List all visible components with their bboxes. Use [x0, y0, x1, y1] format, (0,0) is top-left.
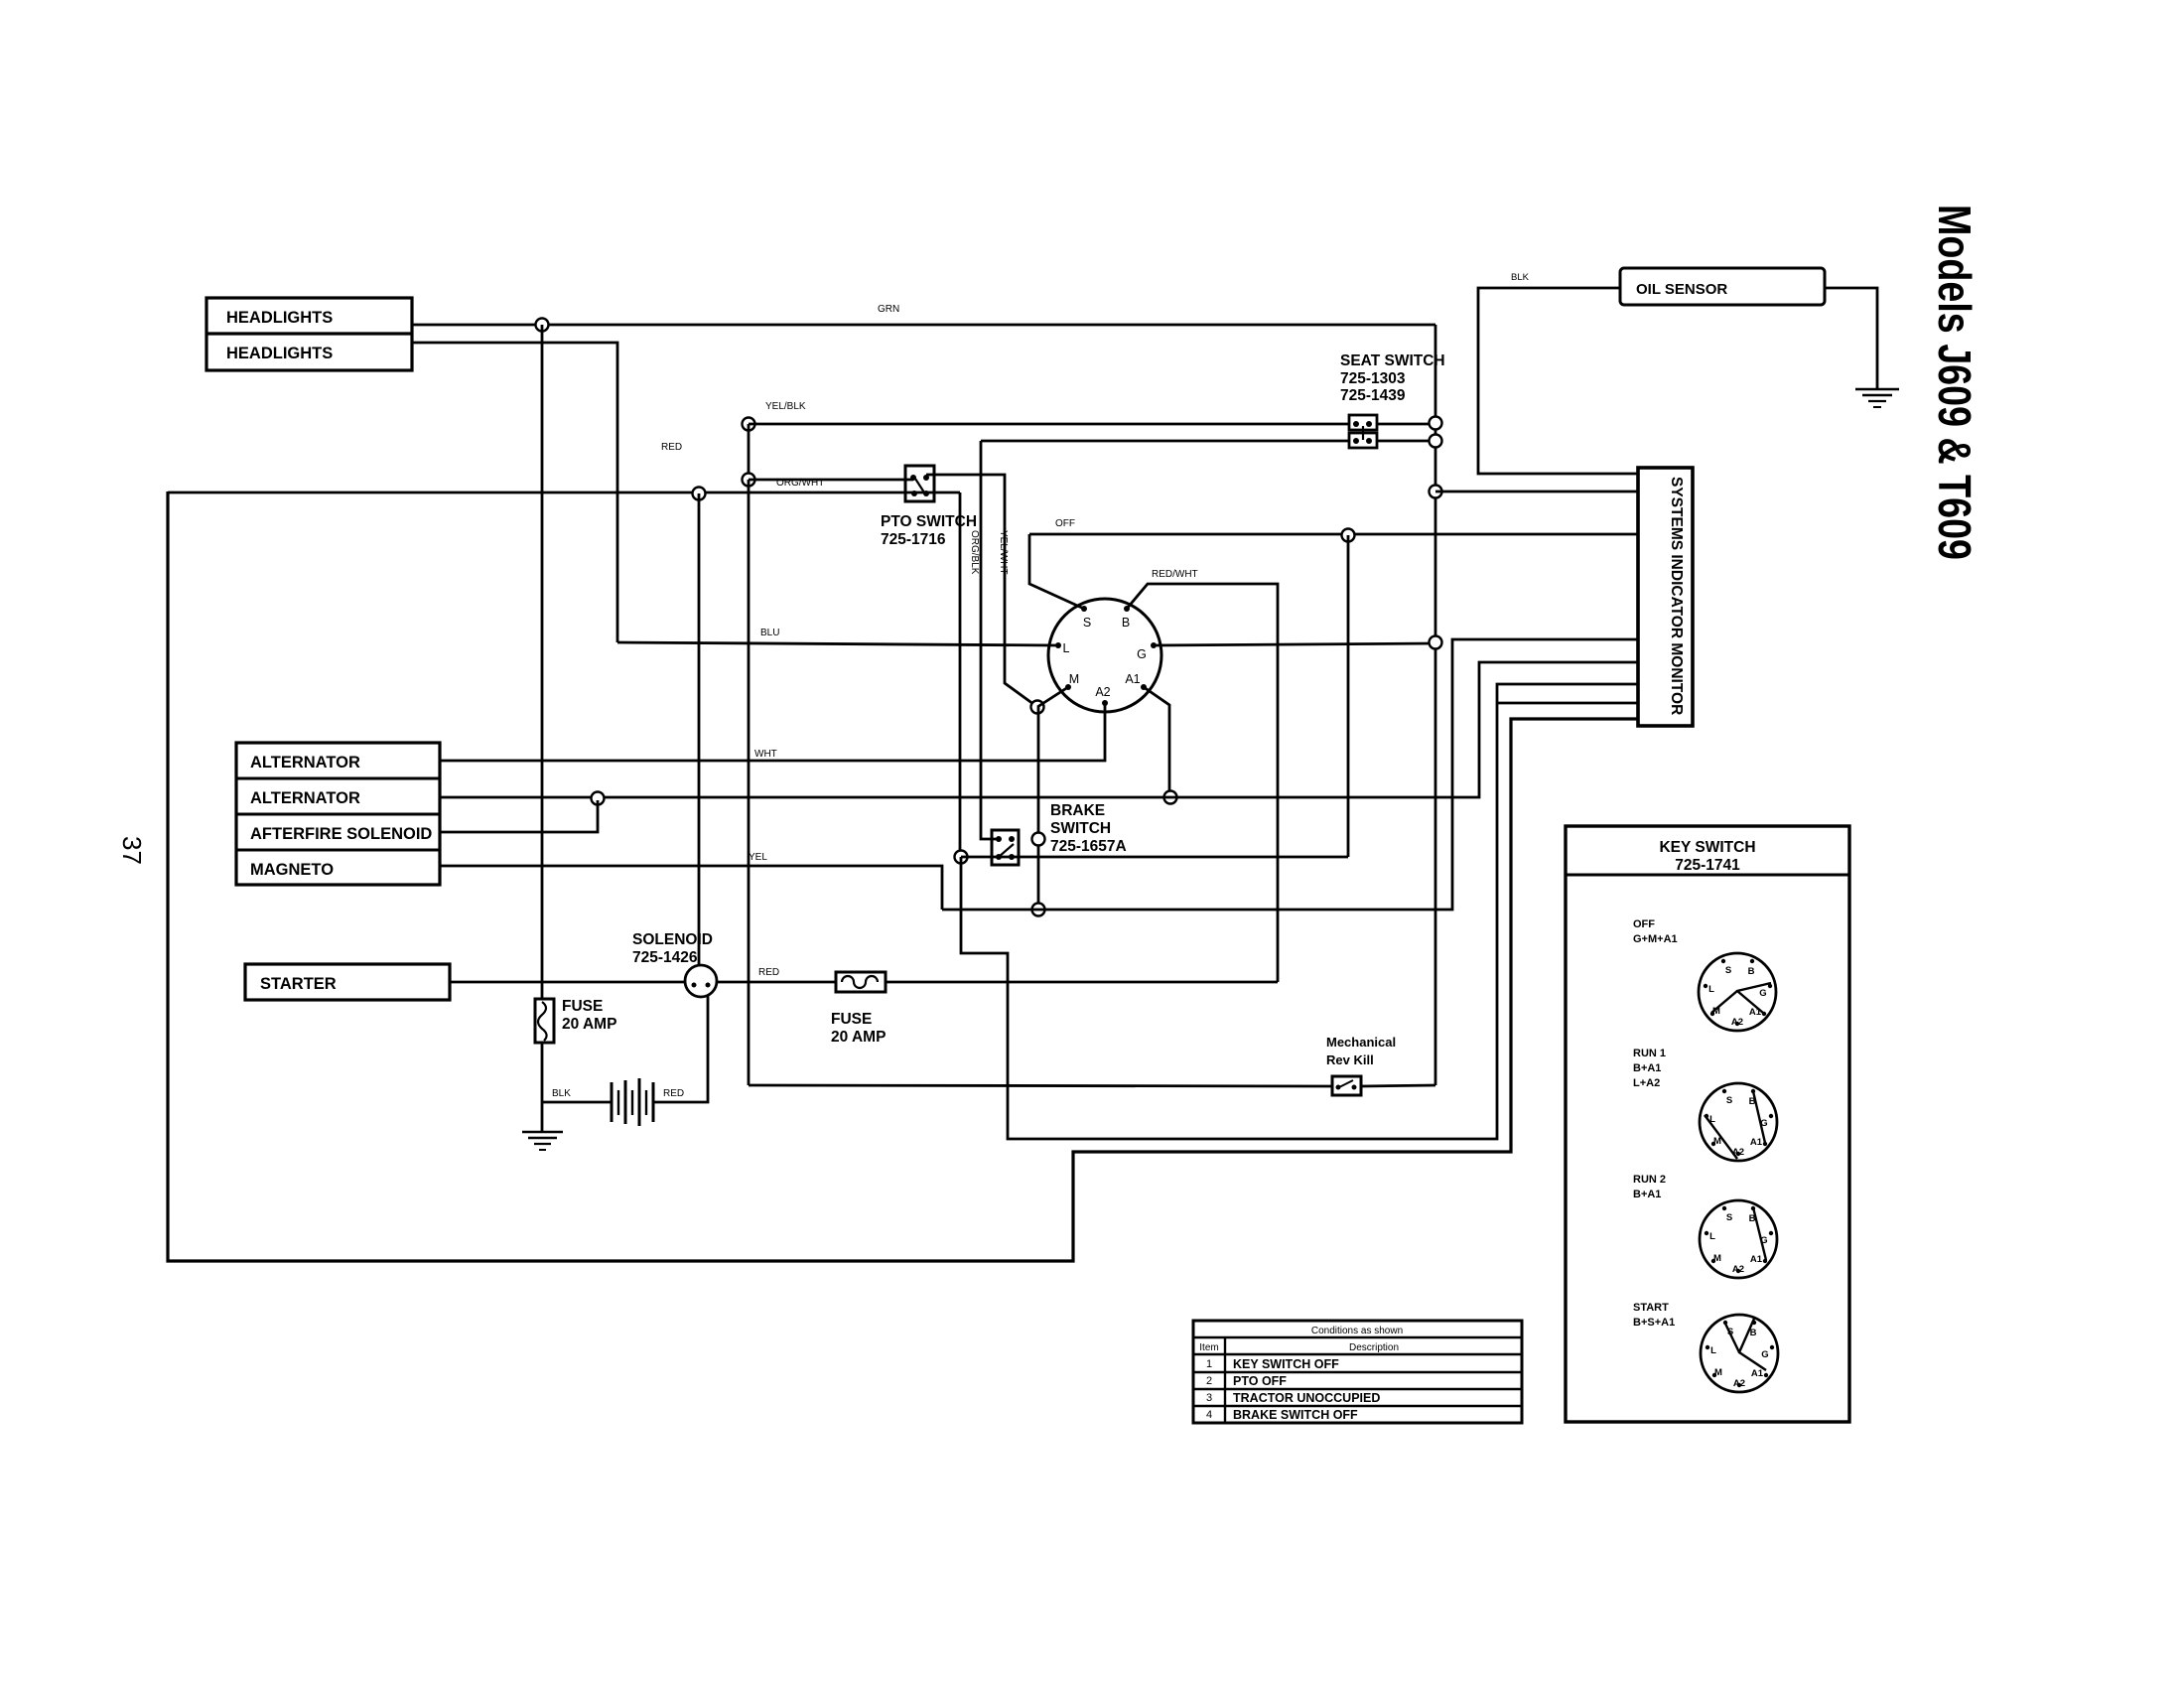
- terminal G: [1151, 642, 1157, 648]
- brake contact dots: [996, 836, 1002, 842]
- ground battery: [522, 1131, 563, 1134]
- wire RED solenoid to fuse: [717, 981, 836, 984]
- svg-text:B+A1: B+A1: [1633, 1189, 1661, 1200]
- junction ORG/WHT to solenoid column: [693, 488, 706, 500]
- svg-text:L: L: [1708, 984, 1714, 995]
- junction seat 1: [1430, 417, 1442, 430]
- svg-text:STARTER: STARTER: [260, 975, 337, 993]
- wire GRN vertical: [1434, 325, 1437, 1085]
- svg-text:37: 37: [117, 836, 147, 865]
- svg-text:OFF: OFF: [1633, 918, 1655, 930]
- wire BLU bus to L: [617, 642, 1058, 645]
- svg-text:725-1741: 725-1741: [1675, 857, 1740, 874]
- wire to SIM 495: [1435, 491, 1638, 493]
- svg-text:S: S: [1725, 965, 1731, 976]
- svg-text:1: 1: [1206, 1358, 1212, 1370]
- PTO switch box: [905, 466, 934, 501]
- starter box: [245, 964, 450, 1000]
- wire headlight fuse column: [541, 325, 544, 999]
- svg-text:Rev Kill: Rev Kill: [1326, 1052, 1374, 1067]
- junction headlight GRN: [536, 319, 549, 332]
- junction YEL/BLK upper: [743, 418, 755, 431]
- junction PTO feed: [743, 474, 755, 487]
- wire M diagonal: [1037, 687, 1068, 707]
- ground oil sensor: [1855, 388, 1899, 391]
- wire RED fuse to RED/WHT: [886, 981, 1278, 984]
- key circle RUN 2: [1700, 1200, 1777, 1278]
- svg-text:OFF: OFF: [1055, 518, 1075, 529]
- svg-text:2: 2: [1206, 1375, 1212, 1387]
- junction ORG/BLK brake: [955, 851, 968, 864]
- svg-text:G: G: [1137, 647, 1147, 661]
- svg-text:L: L: [1710, 1345, 1716, 1356]
- svg-text:A2: A2: [1731, 1017, 1743, 1028]
- svg-text:A2: A2: [1095, 685, 1110, 699]
- wire G to GRN column: [1154, 643, 1435, 645]
- svg-text:L: L: [1709, 1231, 1715, 1242]
- wire oil sensor to ground: [1825, 288, 1877, 388]
- svg-text:G: G: [1761, 1349, 1768, 1360]
- svg-text:RED: RED: [758, 967, 779, 978]
- svg-text:ORG/BLK: ORG/BLK: [969, 530, 980, 575]
- svg-text:KEY SWITCH: KEY SWITCH: [1659, 839, 1755, 856]
- wire starter to solenoid: [450, 981, 685, 984]
- svg-text:725-1716: 725-1716: [881, 531, 946, 548]
- terminal L: [1055, 642, 1061, 648]
- key circle START: [1701, 1315, 1778, 1392]
- svg-text:B+S+A1: B+S+A1: [1633, 1317, 1675, 1329]
- svg-text:SOLENOID: SOLENOID: [632, 931, 713, 948]
- svg-text:725-1426: 725-1426: [632, 949, 698, 966]
- svg-text:RUN 1: RUN 1: [1633, 1048, 1666, 1059]
- svg-text:RED: RED: [663, 1088, 684, 1099]
- svg-text:A1: A1: [1125, 672, 1140, 686]
- wire YEL to SIM: [942, 639, 1638, 910]
- svg-text:START: START: [1633, 1302, 1669, 1314]
- PTO contact dots: [910, 475, 916, 481]
- svg-text:PTO OFF: PTO OFF: [1233, 1374, 1287, 1388]
- seat connector 1: [1349, 415, 1377, 430]
- svg-text:YEL/BLK: YEL/BLK: [765, 401, 806, 412]
- svg-text:725-1303: 725-1303: [1340, 370, 1406, 387]
- svg-text:FUSE: FUSE: [562, 998, 603, 1015]
- wire PTO column link: [748, 424, 751, 480]
- conditions table: [1193, 1321, 1522, 1423]
- brake lever: [999, 844, 1014, 857]
- svg-text:A1: A1: [1751, 1368, 1764, 1379]
- svg-text:S: S: [1726, 1212, 1732, 1223]
- alternator box: [236, 743, 440, 885]
- wire to PTO switch: [749, 479, 913, 482]
- seat connector link: [1362, 426, 1364, 440]
- wire seat drop to brake: [981, 441, 999, 839]
- svg-text:GRN: GRN: [878, 304, 899, 315]
- terminal A2: [1102, 700, 1108, 706]
- svg-text:S: S: [1726, 1095, 1732, 1106]
- junction G: [1430, 636, 1442, 649]
- svg-text:YEL/WHT: YEL/WHT: [998, 530, 1009, 574]
- wire seat conn2 out: [1377, 440, 1435, 443]
- terminal S: [1081, 606, 1087, 612]
- svg-text:A2: A2: [1732, 1264, 1744, 1275]
- junction M YEL: [1032, 904, 1045, 916]
- svg-text:3: 3: [1206, 1392, 1212, 1404]
- wire OFF to S terminal: [1029, 534, 1084, 609]
- terminal B: [1124, 606, 1130, 612]
- wire ORG/BLK lower chain: [961, 684, 1638, 1139]
- svg-text:BRAKE SWITCH OFF: BRAKE SWITCH OFF: [1233, 1408, 1358, 1422]
- svg-text:G: G: [1759, 988, 1766, 999]
- svg-text:FUSE: FUSE: [831, 1011, 872, 1028]
- svg-text:20 AMP: 20 AMP: [831, 1029, 886, 1046]
- svg-text:TRACTOR UNOCCUPIED: TRACTOR UNOCCUPIED: [1233, 1391, 1380, 1405]
- svg-text:L: L: [1063, 641, 1070, 655]
- svg-text:S: S: [1083, 616, 1091, 630]
- wire seat conn1 out: [1377, 423, 1435, 426]
- junction SIM feed: [1430, 486, 1442, 498]
- svg-text:B: B: [1122, 616, 1130, 630]
- svg-text:Conditions as shown: Conditions as shown: [1311, 1326, 1403, 1336]
- wire A1 drop: [1144, 687, 1169, 797]
- wire rev kill to GRN column: [1361, 1085, 1435, 1086]
- fuse 2 box: [836, 972, 886, 992]
- key switch panel: [1566, 826, 1849, 1422]
- svg-text:BLK: BLK: [552, 1088, 571, 1099]
- brake switch box: [992, 830, 1019, 865]
- wire WHT bus to A2: [440, 703, 1105, 761]
- systems indicator monitor box: [1638, 468, 1693, 726]
- svg-text:A1: A1: [1750, 1137, 1763, 1148]
- PTO lever: [915, 479, 924, 492]
- solenoid contact dots: [692, 983, 697, 988]
- svg-text:WHT: WHT: [754, 749, 777, 760]
- battery: [611, 1082, 614, 1122]
- wire left border net: [168, 491, 1638, 1261]
- ignition switch circle: [1048, 599, 1161, 712]
- wire headlights lower: [412, 343, 617, 642]
- svg-text:SYSTEMS INDICATOR MONITOR: SYSTEMS INDICATOR MONITOR: [1668, 477, 1685, 715]
- svg-text:PTO SWITCH: PTO SWITCH: [881, 513, 977, 530]
- wire YEL/BLK to seat connector 1: [749, 423, 1349, 426]
- svg-text:G+M+A1: G+M+A1: [1633, 933, 1678, 945]
- rev kill box: [1332, 1076, 1361, 1095]
- svg-text:Item: Item: [1199, 1342, 1218, 1353]
- wire OFF bus: [1029, 533, 1638, 536]
- svg-text:RUN 2: RUN 2: [1633, 1174, 1666, 1186]
- svg-text:725-1439: 725-1439: [1340, 387, 1406, 404]
- svg-text:ALTERNATOR: ALTERNATOR: [250, 789, 360, 807]
- solenoid circle: [685, 965, 717, 997]
- svg-text:A1: A1: [1749, 1007, 1762, 1018]
- svg-text:Mechanical: Mechanical: [1326, 1035, 1396, 1050]
- svg-text:BLU: BLU: [760, 628, 779, 638]
- svg-text:SEAT SWITCH: SEAT SWITCH: [1340, 352, 1445, 369]
- svg-text:AFTERFIRE SOLENOID: AFTERFIRE SOLENOID: [250, 825, 432, 843]
- wire ALT2 bus: [440, 662, 1638, 797]
- wire afterfire jog: [440, 800, 598, 832]
- svg-text:20 AMP: 20 AMP: [562, 1016, 616, 1033]
- wire oil sensor BLK: [1478, 288, 1638, 474]
- oil sensor box: [1620, 268, 1825, 305]
- wire brake to OFF: [1347, 535, 1350, 857]
- junction A1 ALT: [1164, 791, 1177, 804]
- svg-text:BLK: BLK: [1511, 272, 1530, 283]
- svg-text:OIL SENSOR: OIL SENSOR: [1636, 281, 1727, 298]
- junction OFF brake: [1342, 529, 1355, 542]
- wire brake bus: [961, 856, 1348, 859]
- rev kill contacts: [1336, 1085, 1341, 1090]
- svg-text:B: B: [1748, 966, 1755, 977]
- svg-text:SWITCH: SWITCH: [1050, 820, 1111, 837]
- terminal A1: [1141, 684, 1147, 690]
- svg-text:HEADLIGHTS: HEADLIGHTS: [226, 309, 333, 327]
- wire ORG/WHT bus: [168, 491, 960, 494]
- svg-text:B+A1: B+A1: [1633, 1062, 1661, 1074]
- svg-text:M: M: [1069, 672, 1079, 686]
- seat connector 2: [1349, 433, 1377, 448]
- wire YEL magneto: [440, 866, 942, 910]
- headlights box: [206, 298, 412, 370]
- svg-text:M: M: [1713, 1253, 1721, 1264]
- fuse 1 box: [535, 999, 554, 1043]
- svg-text:RED: RED: [661, 442, 682, 453]
- wire GRN headlights to seat-switch column: [412, 324, 1435, 327]
- svg-text:KEY SWITCH OFF: KEY SWITCH OFF: [1233, 1357, 1339, 1371]
- wire rev kill bus: [749, 1085, 1332, 1086]
- svg-text:A2: A2: [1733, 1378, 1745, 1389]
- svg-text:HEADLIGHTS: HEADLIGHTS: [226, 345, 333, 362]
- svg-text:BRAKE: BRAKE: [1050, 802, 1105, 819]
- key circle RUN 1: [1700, 1083, 1777, 1161]
- wire PTO to YEL/WHT drop: [926, 475, 1037, 707]
- wire fuse to battery junction: [541, 1043, 544, 1131]
- wire battery BLK: [542, 1101, 612, 1104]
- svg-text:M: M: [1714, 1367, 1722, 1378]
- wire solenoid coil feed: [698, 493, 701, 965]
- wire SIM branch 708: [1497, 702, 1638, 705]
- svg-text:YEL: YEL: [749, 852, 767, 863]
- svg-text:RED/WHT: RED/WHT: [1152, 569, 1198, 580]
- svg-text:MAGNETO: MAGNETO: [250, 861, 334, 879]
- svg-text:A1: A1: [1750, 1254, 1763, 1265]
- wire RED/WHT from B: [1127, 584, 1278, 982]
- svg-text:Description: Description: [1349, 1342, 1399, 1353]
- svg-text:ALTERNATOR: ALTERNATOR: [250, 754, 360, 772]
- wire seat lower return: [981, 440, 1349, 443]
- wire PTO column down: [748, 480, 751, 1085]
- svg-text:L+A2: L+A2: [1633, 1077, 1660, 1089]
- svg-text:725-1657A: 725-1657A: [1050, 838, 1127, 855]
- junction M: [1031, 701, 1044, 714]
- wire ORG/BLK drop: [959, 492, 962, 857]
- junction seat 2: [1430, 435, 1442, 448]
- svg-text:4: 4: [1206, 1409, 1212, 1421]
- svg-text:Models J609 & T609: Models J609 & T609: [1929, 205, 1980, 560]
- terminal M: [1065, 684, 1071, 690]
- wire battery RED: [653, 995, 708, 1102]
- junction afterfire: [592, 792, 605, 805]
- key circle OFF: [1699, 953, 1776, 1031]
- junction brake top: [1032, 833, 1045, 846]
- wire M column: [1037, 707, 1040, 910]
